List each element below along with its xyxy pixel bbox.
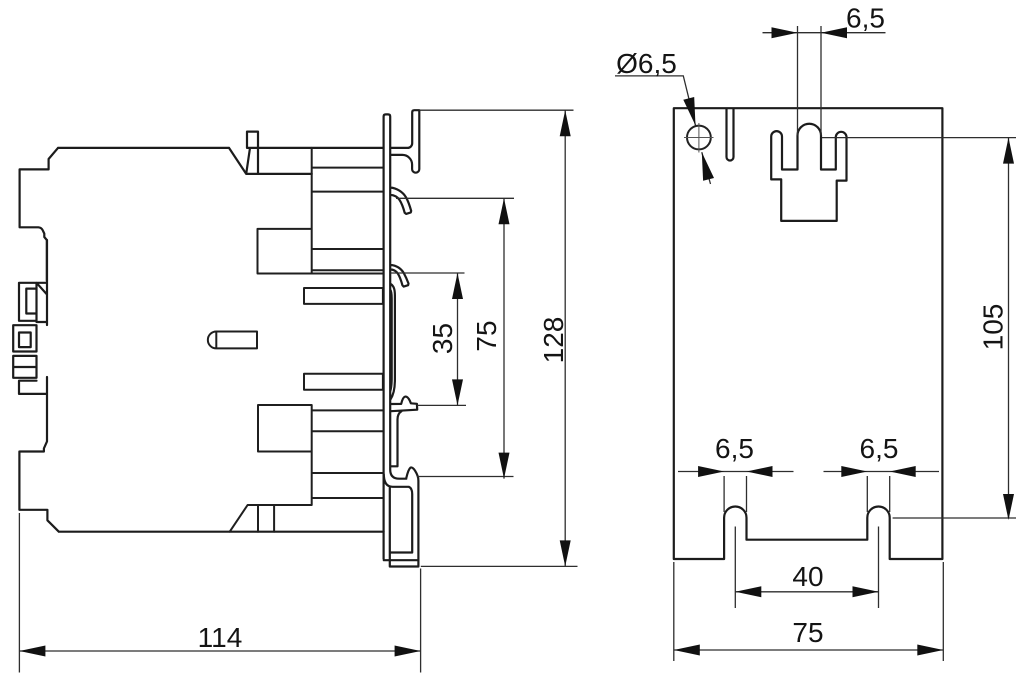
svg-text:6,5: 6,5 — [846, 3, 885, 34]
svg-text:35: 35 — [427, 323, 458, 354]
svg-text:6,5: 6,5 — [860, 433, 899, 464]
svg-text:75: 75 — [471, 320, 502, 351]
svg-text:128: 128 — [538, 317, 569, 364]
svg-text:40: 40 — [792, 561, 823, 592]
svg-text:Ø6,5: Ø6,5 — [616, 48, 677, 79]
svg-text:6,5: 6,5 — [715, 433, 754, 464]
svg-text:75: 75 — [792, 617, 823, 648]
svg-text:105: 105 — [978, 304, 1009, 351]
svg-text:114: 114 — [198, 622, 243, 653]
